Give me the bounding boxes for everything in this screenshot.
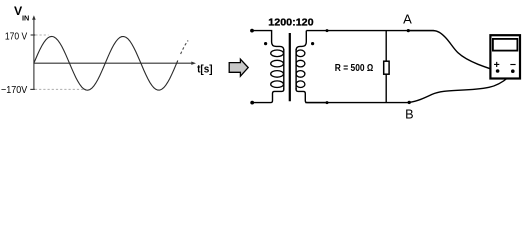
svg-text:IN: IN: [22, 15, 29, 22]
svg-text:−170V: −170V: [1, 84, 27, 96]
svg-text:B: B: [405, 107, 413, 121]
svg-text:−: −: [510, 59, 516, 71]
svg-text:t[s]: t[s]: [197, 64, 213, 76]
svg-text:170 V: 170 V: [5, 30, 27, 42]
svg-text:A: A: [403, 11, 412, 26]
svg-text:1200:120: 1200:120: [268, 18, 314, 29]
svg-text:+: +: [494, 59, 500, 71]
svg-text:R = 500 Ω: R = 500 Ω: [335, 63, 374, 74]
